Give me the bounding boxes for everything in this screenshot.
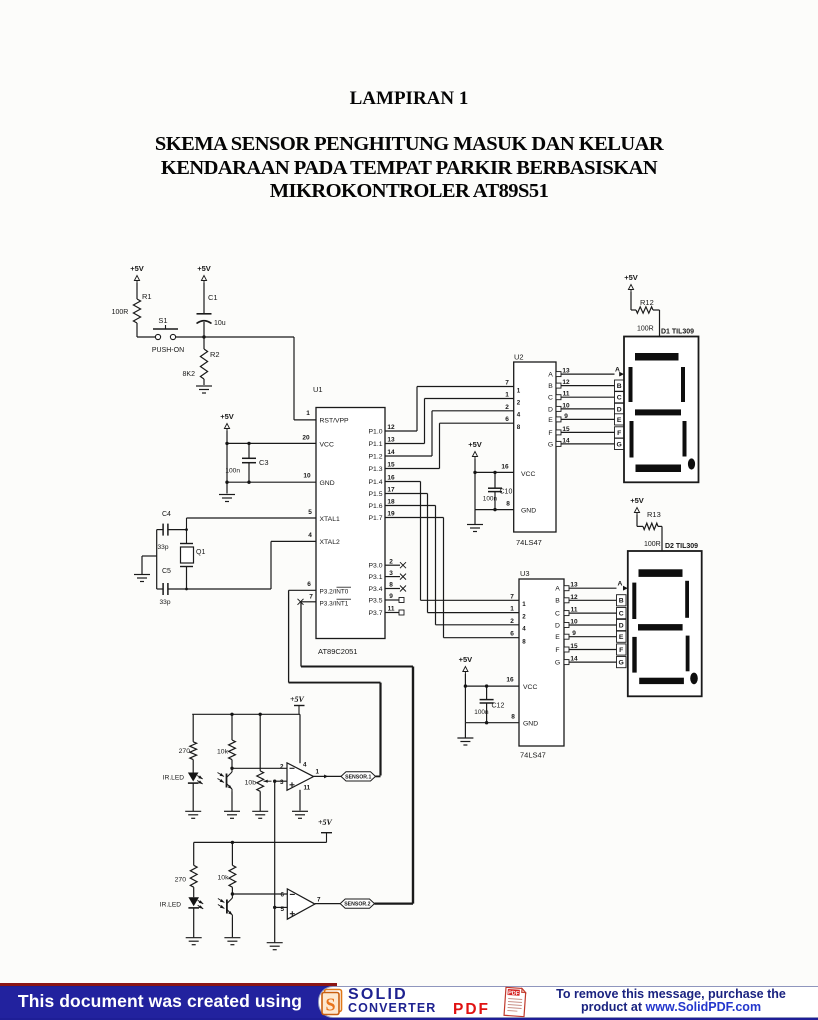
ground (U1) xyxy=(219,495,235,502)
svg-text:13: 13 xyxy=(387,437,395,444)
D1 segment letter pads xyxy=(615,366,625,449)
wire op-amp 1 V- pin 11 to ground xyxy=(299,790,301,811)
svg-text:6: 6 xyxy=(505,416,509,423)
wire VCC pin 20 xyxy=(225,442,316,445)
U2 VCC wire pin 16 xyxy=(473,459,513,510)
svg-text:P3.2/INT0: P3.2/INT0 xyxy=(320,589,349,596)
resistor 270 (sensor 1) xyxy=(179,714,197,772)
svg-text:VCC: VCC xyxy=(523,684,537,691)
switch S1 PUSH-ON xyxy=(152,316,184,354)
svg-text:8: 8 xyxy=(506,501,510,508)
svg-text:E: E xyxy=(555,634,560,641)
svg-text:A: A xyxy=(555,586,560,593)
svg-text:D: D xyxy=(555,622,560,629)
op-amp U4B comparator xyxy=(280,889,321,919)
svg-text:100R: 100R xyxy=(644,541,661,548)
ground (phototransistor 1) xyxy=(224,811,240,818)
power +5V rail (sensor 1) xyxy=(290,695,305,714)
svg-text:C5: C5 xyxy=(162,568,171,575)
svg-text:P1.3: P1.3 xyxy=(369,466,383,473)
wire +5V rail 2 xyxy=(194,841,327,843)
svg-text:C1: C1 xyxy=(208,293,218,302)
svg-text:P3.3/INT1: P3.3/INT1 xyxy=(320,601,349,608)
svg-text:2: 2 xyxy=(517,399,521,406)
wire P1.3 to U2 input D xyxy=(385,423,514,468)
svg-text:R13: R13 xyxy=(647,510,661,519)
U1 unused pin stubs P3.0 P3.1 P3.4 xyxy=(385,562,406,591)
resistor 10k (sensor 1) xyxy=(217,713,235,769)
svg-text:+5V: +5V xyxy=(624,273,638,282)
wire op-amp 1 output xyxy=(314,774,341,778)
SOLID CONVERTER wordmark xyxy=(348,989,408,1001)
U1 right pin names P3.0 P3.1 P3.4 P3.5 P3.7 xyxy=(369,563,383,617)
wire P1.5 to U3 input B xyxy=(385,494,519,613)
capacitor C4 33p xyxy=(157,511,187,551)
capacitor C12 100n xyxy=(474,684,504,724)
PDF red wordmark xyxy=(453,1001,490,1019)
net label SENSOR.2 xyxy=(340,899,374,908)
svg-text:XTAL2: XTAL2 xyxy=(320,539,340,546)
U2 input pin numbers xyxy=(501,380,520,508)
wire GND pin 10 xyxy=(225,481,316,484)
svg-text:B: B xyxy=(555,598,560,605)
capacitor C3 100n xyxy=(225,442,268,484)
svg-text:F: F xyxy=(555,647,559,654)
U3 input pin numbers xyxy=(506,593,526,720)
svg-text:+5V: +5V xyxy=(318,818,333,827)
svg-text:B: B xyxy=(619,598,624,605)
ground (U3) xyxy=(457,723,473,745)
svg-text:GND: GND xyxy=(521,508,536,515)
white plaque xyxy=(318,986,818,1018)
svg-text:C4: C4 xyxy=(162,511,171,518)
svg-text:E: E xyxy=(617,417,622,424)
svg-text:VCC: VCC xyxy=(521,471,535,478)
svg-text:GND: GND xyxy=(320,480,335,487)
svg-text:+5V: +5V xyxy=(459,655,473,664)
U3 GND wire pin 8 xyxy=(465,722,519,724)
infrared LED IR.LED (sensor 2) xyxy=(160,897,204,937)
svg-text:P1.2: P1.2 xyxy=(369,453,383,460)
svg-text:2: 2 xyxy=(510,618,514,625)
svg-text:1: 1 xyxy=(517,387,521,394)
svg-text:6: 6 xyxy=(280,891,284,898)
svg-text:F: F xyxy=(619,647,623,654)
svg-text:7: 7 xyxy=(317,897,321,904)
svg-text:7: 7 xyxy=(510,593,514,600)
capacitor C5 33p xyxy=(157,568,187,606)
svg-text:G: G xyxy=(617,441,622,448)
svg-text:PUSH-ON: PUSH-ON xyxy=(152,347,184,354)
svg-text:C: C xyxy=(548,395,553,402)
wire to crystal ground xyxy=(142,555,157,557)
net INT1 from P3.3 to SENSOR.2 xyxy=(298,599,414,904)
wire plus node chain to sensor 2 xyxy=(273,781,287,942)
D1 segments xyxy=(629,353,696,472)
svg-text:270: 270 xyxy=(175,877,187,884)
U3 output letters A-G xyxy=(555,586,560,667)
svg-text:5: 5 xyxy=(308,509,312,516)
footer banner xyxy=(0,983,818,1020)
svg-text:74LS47: 74LS47 xyxy=(516,538,542,547)
svg-text:14: 14 xyxy=(387,449,395,456)
resistor R1 100R xyxy=(112,283,152,337)
net label SENSOR.1 xyxy=(341,772,376,781)
wire op-amp 1 V+ pin 4 xyxy=(299,714,301,763)
svg-text:17: 17 xyxy=(387,487,395,494)
svg-text:G: G xyxy=(555,660,560,667)
svg-text:4: 4 xyxy=(308,532,312,539)
svg-text:12: 12 xyxy=(387,424,395,431)
U3 supply +5V xyxy=(459,655,473,674)
D2 segment letter pads xyxy=(617,580,628,667)
capacitor C1 10u xyxy=(197,283,226,337)
display D2 TIL309 xyxy=(628,543,702,696)
svg-text:S: S xyxy=(325,995,335,1015)
svg-text:20: 20 xyxy=(302,435,310,442)
svg-text:C: C xyxy=(617,395,622,402)
navy band xyxy=(0,986,818,1020)
U1 pin numbers left side xyxy=(302,435,313,601)
svg-text:19: 19 xyxy=(387,511,395,518)
wire crystal left node xyxy=(156,530,158,589)
crystal Q1 xyxy=(180,518,205,590)
wire node to RST corner xyxy=(204,336,294,338)
wire P1.7 to U3 input D xyxy=(385,518,519,638)
svg-text:U1: U1 xyxy=(313,385,323,394)
phototransistor (sensor 1) xyxy=(218,770,234,812)
svg-text:C: C xyxy=(555,611,560,618)
svg-text:P1.1: P1.1 xyxy=(369,441,383,448)
svg-text:33p: 33p xyxy=(159,599,170,606)
svg-text:16: 16 xyxy=(387,475,395,482)
svg-text:F: F xyxy=(548,430,552,437)
ground (U2) xyxy=(467,510,483,532)
BCD decoder U3 74LS47 xyxy=(519,569,564,760)
ground (plus node) xyxy=(267,943,283,950)
U2 supply +5V xyxy=(468,440,482,459)
ground (IR LED 1) xyxy=(185,811,201,818)
svg-text:+5V: +5V xyxy=(130,264,144,273)
svg-text:P1.4: P1.4 xyxy=(369,479,383,486)
U3 output pins and wires to D2 xyxy=(564,582,617,665)
svg-text:2: 2 xyxy=(505,404,509,411)
svg-text:8K2: 8K2 xyxy=(183,371,196,378)
wire R1 to S1 xyxy=(137,336,155,338)
svg-text:C3: C3 xyxy=(259,458,269,467)
svg-text:16: 16 xyxy=(501,464,509,471)
svg-text:+5V: +5V xyxy=(197,264,211,273)
microcontroller U1 AT89C2051 xyxy=(313,385,385,656)
page title LAMPIRAN 1 xyxy=(0,88,818,110)
svg-text:B: B xyxy=(617,383,622,390)
svg-text:D1 TIL309: D1 TIL309 xyxy=(661,329,694,336)
svg-text:B: B xyxy=(548,383,553,390)
svg-text:D: D xyxy=(548,406,553,413)
wire plus node to comparator plus input xyxy=(273,780,287,783)
net INT0 from P3.2 to SENSOR.1 xyxy=(289,590,381,775)
svg-text:+5V: +5V xyxy=(220,412,234,421)
wire SENSOR.2 to INT1 net xyxy=(375,902,414,904)
phototransistor (sensor 2) xyxy=(218,896,234,938)
page subtitle xyxy=(0,133,818,204)
power +5V (R12) xyxy=(624,273,638,292)
resistor R13 100R xyxy=(637,510,662,551)
svg-text:4: 4 xyxy=(517,412,521,419)
svg-text:P3.7: P3.7 xyxy=(369,610,383,617)
svg-text:1: 1 xyxy=(522,601,526,608)
wire P1.6 to U3 input C xyxy=(385,506,519,625)
svg-text:33p: 33p xyxy=(157,544,168,551)
wire P1.0 to U2 input A xyxy=(385,387,514,432)
svg-text:10: 10 xyxy=(303,473,311,480)
svg-text:R2: R2 xyxy=(210,350,220,359)
node C1/R2/RST junction xyxy=(202,335,205,338)
svg-text:U3: U3 xyxy=(520,569,530,578)
svg-text:11: 11 xyxy=(304,785,311,792)
power +5V (R13) xyxy=(630,496,644,515)
svg-text:E: E xyxy=(548,417,553,424)
svg-text:AT89C2051: AT89C2051 xyxy=(318,647,357,656)
U2 GND wire pin 8 xyxy=(475,509,514,511)
svg-text:IR.LED: IR.LED xyxy=(160,902,181,909)
svg-text:XTAL1: XTAL1 xyxy=(320,516,340,523)
svg-text:+5V: +5V xyxy=(290,695,305,704)
svg-text:A: A xyxy=(618,580,623,587)
ground (potentiometer) xyxy=(252,811,268,818)
U1 left pin names xyxy=(320,418,352,608)
svg-text:C: C xyxy=(619,611,624,618)
svg-text:10k: 10k xyxy=(217,749,229,756)
svg-text:G: G xyxy=(619,660,624,667)
ground (IR LED 2) xyxy=(186,938,202,945)
wire P1.4 to U3 input A xyxy=(385,482,519,601)
svg-text:4: 4 xyxy=(303,762,307,769)
svg-text:270: 270 xyxy=(179,748,191,755)
remove message text xyxy=(538,988,804,1013)
svg-text:2: 2 xyxy=(389,558,393,565)
infrared LED IR.LED (sensor 1) xyxy=(163,773,204,812)
svg-text:+5V: +5V xyxy=(630,496,644,505)
resistor R12 100R xyxy=(631,292,660,337)
svg-text:P1.6: P1.6 xyxy=(369,503,383,510)
svg-text:GND: GND xyxy=(523,721,538,728)
svg-text:+5V: +5V xyxy=(468,440,482,449)
svg-text:1: 1 xyxy=(505,392,509,399)
U1 pin numbers right side xyxy=(387,424,395,613)
svg-text:100n: 100n xyxy=(225,468,240,475)
svg-text:9: 9 xyxy=(389,593,393,600)
svg-text:D2 TIL309: D2 TIL309 xyxy=(665,543,698,550)
U2 output pins and wires to D1 xyxy=(556,368,615,447)
svg-text:100R: 100R xyxy=(637,326,654,333)
svg-text:D: D xyxy=(617,406,622,413)
svg-text:7: 7 xyxy=(505,380,509,387)
ground (phototransistor 2) xyxy=(224,938,240,945)
U1 right pin names P1.0-P1.7 xyxy=(369,428,383,522)
svg-text:SENSOR.2: SENSOR.2 xyxy=(344,902,370,908)
power +5V (U1 VCC) xyxy=(220,412,234,431)
svg-text:10b: 10b xyxy=(245,780,257,787)
U3 VCC wire pin 16 xyxy=(464,674,519,723)
power +5V rail (sensor 2) xyxy=(318,818,333,842)
power +5V (R1 supply) xyxy=(130,264,144,283)
svg-text:1: 1 xyxy=(510,606,514,613)
svg-text:100n: 100n xyxy=(483,496,498,503)
svg-text:8: 8 xyxy=(389,582,393,589)
svg-text:74LS47: 74LS47 xyxy=(520,751,546,760)
wire op-amp 2 output xyxy=(315,903,340,905)
display D1 TIL309 xyxy=(624,329,699,483)
svg-text:5: 5 xyxy=(280,906,284,913)
ground (R2) xyxy=(196,386,212,393)
banner text xyxy=(0,991,320,1012)
Solid Converter S icon xyxy=(320,988,347,1016)
svg-text:R1: R1 xyxy=(142,292,152,301)
svg-text:100n: 100n xyxy=(474,709,489,716)
svg-text:A: A xyxy=(548,372,553,379)
svg-text:11: 11 xyxy=(388,606,395,613)
svg-text:3: 3 xyxy=(389,570,393,577)
svg-text:P1.5: P1.5 xyxy=(369,491,383,498)
svg-text:G: G xyxy=(548,441,553,448)
svg-text:10u: 10u xyxy=(214,320,226,327)
svg-text:100R: 100R xyxy=(112,309,129,316)
BCD decoder U2 74LS47 xyxy=(514,353,556,548)
svg-text:F: F xyxy=(617,430,621,437)
svg-text:S1: S1 xyxy=(158,316,167,325)
resistor 10k (sensor 2) xyxy=(218,841,236,894)
wire +5V to VCC/GND rail xyxy=(226,431,228,494)
red top rule xyxy=(0,983,337,986)
svg-text:P3.0: P3.0 xyxy=(369,563,383,570)
svg-text:SENSOR.1: SENSOR.1 xyxy=(345,774,371,780)
PDF page icon xyxy=(501,986,529,1019)
U2 output letters A-G xyxy=(548,372,553,449)
resistor R2 8K2 xyxy=(183,337,220,385)
svg-text:P1.0: P1.0 xyxy=(369,428,383,435)
wire RST vertical xyxy=(293,337,295,420)
wire SENSOR.1 to INT0 net xyxy=(376,775,381,777)
svg-text:D: D xyxy=(619,622,624,629)
svg-text:8: 8 xyxy=(517,424,521,431)
svg-text:1: 1 xyxy=(316,769,320,776)
wire P1.1 to U2 input B xyxy=(385,399,514,444)
svg-text:6: 6 xyxy=(510,631,514,638)
svg-text:8: 8 xyxy=(511,714,515,721)
svg-text:VCC: VCC xyxy=(320,442,334,449)
ground (op-amp 1) xyxy=(292,811,308,818)
svg-text:C10: C10 xyxy=(500,489,513,496)
svg-text:1: 1 xyxy=(306,410,310,417)
ground (crystal) xyxy=(134,556,150,582)
svg-text:P3.5: P3.5 xyxy=(369,597,383,604)
svg-text:6: 6 xyxy=(307,581,311,588)
wire 10k node 2 to comparator minus input xyxy=(231,892,288,895)
svg-text:R12: R12 xyxy=(640,298,654,307)
svg-text:PDF: PDF xyxy=(508,990,520,997)
D2 segments xyxy=(632,569,698,684)
svg-text:8: 8 xyxy=(522,639,526,646)
wire +5V rail 1 xyxy=(192,713,300,715)
wire XTAL2 pin 4 xyxy=(187,541,317,589)
svg-text:Q1: Q1 xyxy=(196,549,205,556)
svg-text:IR.LED: IR.LED xyxy=(163,775,184,782)
svg-text:10k: 10k xyxy=(218,875,230,882)
wire P1.2 to U2 input C xyxy=(385,411,514,456)
wire S1 to C1/R2 node xyxy=(176,336,204,338)
potentiometer 10k (trimmer) xyxy=(245,713,272,811)
svg-text:U2: U2 xyxy=(514,353,524,362)
svg-text:E: E xyxy=(619,634,624,641)
svg-text:7: 7 xyxy=(309,594,313,601)
svg-text:P3.4: P3.4 xyxy=(369,586,383,593)
resistor 270 (sensor 2) xyxy=(175,842,197,897)
svg-text:15: 15 xyxy=(387,462,395,469)
svg-text:C12: C12 xyxy=(492,703,505,710)
svg-text:P3.1: P3.1 xyxy=(369,574,383,581)
svg-text:16: 16 xyxy=(506,677,514,684)
capacitor C10 100n xyxy=(483,471,513,512)
svg-text:2: 2 xyxy=(522,613,526,620)
wire 10k node to comparator minus input xyxy=(230,767,287,770)
svg-text:P1.7: P1.7 xyxy=(369,515,383,522)
op-amp U4A comparator xyxy=(280,762,320,792)
svg-text:3: 3 xyxy=(280,779,284,786)
wire RST stub pin 1 xyxy=(294,410,316,420)
svg-text:2: 2 xyxy=(280,763,284,770)
power +5V (C1 supply) xyxy=(197,264,211,283)
wire XTAL1 pin 5 xyxy=(187,517,317,519)
svg-text:RST/VPP: RST/VPP xyxy=(320,418,350,425)
svg-text:4: 4 xyxy=(522,626,526,633)
U1 unused pin stubs P3.5 P3.7 xyxy=(385,598,404,616)
svg-text:18: 18 xyxy=(387,499,395,506)
